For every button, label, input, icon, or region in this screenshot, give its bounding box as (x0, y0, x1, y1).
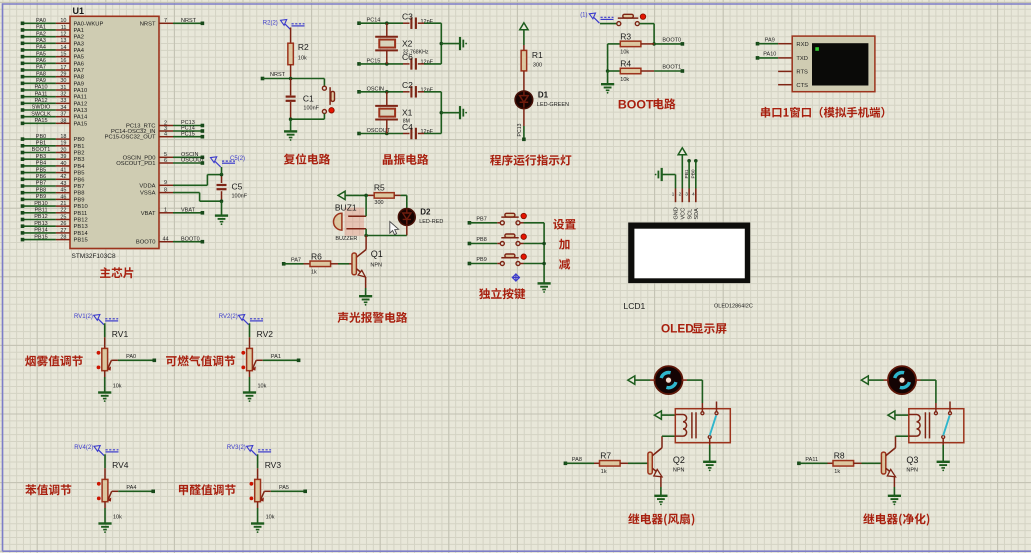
svg-text:27: 27 (60, 228, 66, 234)
svg-text:RV4: RV4 (112, 460, 129, 470)
ground below RV1 (98, 393, 111, 403)
ground below buttons (538, 283, 551, 293)
U1 pin VSSA (8) wire to C5 (140, 188, 221, 202)
label 烟雾值调节 (25, 355, 83, 366)
svg-text:NPN: NPN (673, 467, 685, 473)
label 苯值调节 (25, 484, 71, 495)
U1 pin PA12 (33) wire (21, 98, 88, 107)
ground below Q3 (888, 496, 901, 506)
svg-text:11: 11 (61, 25, 67, 31)
svg-text:PB8: PB8 (36, 187, 46, 193)
svg-text:LED-GREEN: LED-GREEN (537, 102, 569, 108)
wire PB9 to ground bus (520, 263, 544, 265)
svg-text:NPN: NPN (370, 262, 382, 268)
svg-text:RV1: RV1 (112, 329, 129, 339)
svg-text:PB2: PB2 (74, 151, 85, 157)
ground below RV2 (243, 393, 256, 403)
svg-text:PA2: PA2 (36, 31, 46, 37)
net terminal PC14 (357, 18, 380, 25)
net PA0 wire from RV1 wiper (111, 354, 156, 362)
svg-text:X1: X1 (402, 107, 413, 117)
svg-text:OLED12864I2C: OLED12864I2C (714, 304, 753, 310)
svg-text:R2: R2 (298, 42, 309, 52)
capacitor C2 12pF (402, 80, 434, 97)
virtual terminal serial window (792, 36, 875, 92)
wire PB7 to ground bus (520, 222, 544, 224)
label OLED显示屏 (661, 322, 726, 336)
svg-text:PA7: PA7 (291, 258, 301, 264)
wire R2 to NRST node (290, 65, 292, 79)
resistor R3 10k (608, 31, 655, 55)
wire PB8 to ground bus (520, 243, 544, 245)
relay 继电器(净化) (909, 402, 964, 443)
wire fan to relay contact (682, 380, 703, 412)
svg-text:PB3: PB3 (36, 154, 46, 160)
svg-text:RV1(2): RV1(2) (74, 314, 93, 320)
U1 pin PA11 (32) wire (21, 91, 87, 100)
label 声光报警电路 (338, 312, 408, 323)
label 晶振电路 (383, 154, 429, 165)
svg-text:PB7: PB7 (36, 181, 46, 187)
svg-text:7: 7 (164, 18, 167, 24)
svg-text:44: 44 (162, 237, 168, 243)
svg-text:PA0: PA0 (126, 354, 136, 360)
svg-text:10k: 10k (620, 77, 629, 83)
svg-text:PA4: PA4 (74, 48, 85, 54)
wire relay common to ground (709, 439, 711, 462)
side ground for X1 (460, 106, 467, 119)
wire RV1 bottom to ground (104, 371, 106, 393)
U1 pin PA6 (16) wire (21, 58, 84, 67)
svg-text:R5: R5 (374, 183, 385, 193)
svg-text:PB0: PB0 (74, 137, 85, 143)
voltage probe (1) for boot switch (580, 13, 613, 24)
ground below relay (937, 462, 950, 472)
svg-text:X2: X2 (402, 38, 413, 48)
svg-text:PB8: PB8 (74, 191, 85, 197)
net PA5 wire from RV3 wiper (264, 485, 307, 493)
svg-text:PA8: PA8 (36, 71, 46, 77)
svg-text:PB1: PB1 (36, 141, 46, 147)
svg-text:38: 38 (60, 118, 66, 124)
svg-text:PC15: PC15 (181, 131, 195, 137)
svg-text:R4: R4 (620, 59, 631, 69)
svg-text:PA1: PA1 (36, 25, 46, 31)
LCD1 OLED module pins (672, 189, 700, 220)
voltage probe RV2(2) (219, 314, 263, 325)
svg-text:43: 43 (60, 181, 66, 187)
power symbol OLED VCC (678, 148, 686, 155)
svg-text:9: 9 (164, 180, 167, 186)
svg-text:PB4: PB4 (36, 161, 46, 167)
origin marker (512, 274, 520, 282)
net PA9 wire to RXD (756, 37, 793, 45)
svg-text:16: 16 (60, 58, 66, 64)
net PA4 wire from RV4 wiper (112, 485, 155, 493)
svg-text:OSCOUT: OSCOUT (181, 158, 205, 164)
svg-text:PA7: PA7 (36, 65, 46, 71)
side ground for OLED GND pin (655, 168, 676, 181)
net PA8 wire (564, 457, 594, 465)
power symbol relay coil (654, 411, 675, 419)
svg-text:D1: D1 (538, 91, 549, 100)
svg-text:PA12: PA12 (74, 101, 88, 107)
svg-text:BUZZER: BUZZER (335, 236, 357, 242)
svg-text:8: 8 (164, 188, 167, 194)
mouse cursor (390, 222, 399, 235)
U1 pin PA3 (13) wire (21, 38, 84, 47)
svg-text:VSSA: VSSA (140, 191, 156, 197)
resistor R2 10k (288, 28, 309, 65)
svg-text:PA2: PA2 (74, 35, 85, 41)
ground below RV4 (98, 524, 111, 533)
wire OSCOUT row (359, 132, 410, 136)
wire PC15 row (359, 62, 410, 66)
svg-text:R3: R3 (620, 31, 631, 41)
U1 pin PA1 (11) wire (21, 25, 84, 34)
label 程序运行指示灯 (490, 154, 571, 165)
svg-text:C1: C1 (303, 94, 314, 104)
wire OLED GND pin (675, 175, 677, 189)
U1 pin PA10 (31) wire (21, 85, 88, 94)
label 继电器(净化) (863, 513, 929, 525)
potentiometer RV1 10k (97, 329, 129, 389)
svg-text:29: 29 (60, 72, 66, 78)
U1 pin PB12 (25) wire (21, 214, 88, 223)
wire PC14 row (359, 21, 410, 25)
U1 pin NRST (7) wire net NRST (140, 18, 204, 27)
U1 pin PA15 (38) wire (21, 118, 88, 127)
buzzer BUZ1 (334, 202, 367, 242)
svg-text:NRST: NRST (140, 21, 156, 27)
resistor R5 300 (368, 183, 401, 207)
svg-text:PC15-OSC32_OUT: PC15-OSC32_OUT (105, 135, 156, 141)
wire R3 left to R4 left (606, 44, 610, 73)
wire D1 to PC13 terminal (517, 109, 526, 142)
ground below relay (703, 462, 716, 472)
net terminal PC15 (357, 58, 380, 65)
net label NRST node (261, 72, 325, 80)
svg-text:17: 17 (60, 65, 66, 71)
svg-text:1k: 1k (311, 270, 317, 276)
ground below R4 (601, 71, 614, 94)
svg-text:PA11: PA11 (74, 95, 87, 101)
svg-text:TXD: TXD (796, 56, 808, 62)
net PB0 wire to SDA (691, 159, 698, 189)
svg-text:BOOT0: BOOT0 (662, 38, 681, 44)
wire OSCIN row (359, 90, 410, 94)
svg-text:28: 28 (60, 235, 66, 241)
net terminal OSCIN (357, 86, 384, 93)
svg-text:PB4: PB4 (74, 164, 86, 170)
svg-text:BOOT1: BOOT1 (662, 65, 681, 71)
power symbol fan (861, 376, 868, 384)
side ground for X2 (460, 37, 467, 50)
svg-text:30: 30 (60, 78, 66, 84)
svg-text:PB10: PB10 (74, 204, 88, 210)
svg-text:PB13: PB13 (74, 224, 88, 230)
wire probe to RV4 top (104, 454, 106, 479)
transistor Q3 NPN (881, 448, 918, 477)
capacitor C5 100nF (217, 173, 248, 203)
svg-text:300: 300 (533, 62, 542, 68)
resistor R7 1k (594, 450, 648, 475)
capacitor C6 12pF (402, 52, 434, 69)
svg-text:PB12: PB12 (34, 214, 47, 220)
svg-text:NRST: NRST (270, 72, 286, 78)
svg-text:PA8: PA8 (74, 75, 85, 81)
svg-text:SCL: SCL (687, 209, 693, 220)
svg-text:PA12: PA12 (34, 98, 47, 104)
svg-text:R2(2): R2(2) (263, 21, 278, 27)
label 串口1窗口（模拟手机端） (761, 107, 885, 118)
label 设置 (553, 219, 575, 230)
svg-text:8M: 8M (403, 118, 410, 124)
svg-text:PB9: PB9 (476, 257, 486, 263)
wire buzzer top to R5 node (365, 195, 367, 216)
wire Q1 emitter to ground (365, 288, 367, 296)
wire fan to relay contact (915, 380, 936, 412)
svg-text:PA10: PA10 (763, 52, 776, 58)
svg-text:PA1: PA1 (271, 354, 281, 360)
svg-text:PB5: PB5 (74, 171, 85, 177)
U1 pin PB1 (19) wire (21, 141, 85, 150)
push button PB8 (497, 234, 526, 246)
svg-text:10k: 10k (266, 514, 275, 520)
wire C2 to right bus (418, 91, 442, 93)
ground below RV3 (251, 524, 264, 533)
svg-text:PA5: PA5 (279, 485, 289, 491)
svg-text:RXD: RXD (796, 42, 808, 48)
svg-text:10k: 10k (298, 56, 307, 62)
U1 pin PA8 (29) wire (21, 71, 84, 80)
svg-text:PA15: PA15 (34, 118, 47, 124)
label 继电器(风扇) (628, 513, 694, 525)
svg-text:OLED: OLED (661, 322, 694, 336)
wire D2 to bottom node (364, 225, 406, 237)
resistor R8 1k (828, 450, 882, 475)
wire RV3 bottom to ground (257, 502, 259, 524)
U1 pin PC13_RTC (2) wire net PC13 (126, 120, 204, 129)
U1 pin PA4 (14) wire (21, 45, 85, 54)
net BOOT1 wire and terminal (654, 65, 684, 73)
svg-text:VBAT: VBAT (181, 208, 196, 214)
wire Q2 emitter to ground (660, 477, 662, 496)
svg-text:PB7: PB7 (74, 184, 85, 190)
net PB1 wire to SCL (684, 159, 691, 189)
label 减 (559, 259, 570, 270)
U1 main chip STM32F103C8 body (70, 6, 159, 260)
svg-text:PA6: PA6 (36, 58, 46, 64)
svg-text:6: 6 (164, 158, 167, 164)
svg-text:PB9: PB9 (36, 194, 46, 200)
voltage probe RV1(2) (74, 314, 118, 325)
svg-text:25: 25 (60, 214, 66, 220)
label 甲醛值调节 (179, 484, 236, 495)
label 主芯片 (100, 267, 133, 278)
svg-text:1k: 1k (834, 469, 840, 475)
svg-text:D2: D2 (420, 208, 431, 217)
resistor R4 10k (608, 59, 655, 83)
svg-text:33: 33 (60, 98, 66, 104)
U1 pin VBAT (1) wire net VBAT (141, 208, 204, 217)
svg-text:RV3: RV3 (265, 460, 282, 470)
wire probe to RV3 top (257, 454, 259, 479)
svg-text:PB6: PB6 (74, 177, 85, 183)
svg-text:VCC: VCC (681, 208, 687, 220)
svg-text:PB10: PB10 (34, 201, 47, 207)
wire C6 to right bus (418, 63, 442, 65)
label BOOT电路 (618, 97, 676, 111)
svg-text:(1): (1) (580, 13, 587, 19)
svg-text:U1: U1 (73, 6, 85, 16)
U1 pin PC14-OSC32_IN (3) wire net PC14 (111, 126, 204, 135)
svg-text:39: 39 (60, 154, 66, 160)
svg-text:SWCLK: SWCLK (31, 111, 51, 117)
potentiometer RV2 10k (241, 329, 273, 389)
svg-text:1k: 1k (601, 469, 607, 475)
wire switch to C1 bottom node (291, 114, 325, 120)
buzzer BUZ1 selection highlight (345, 208, 365, 236)
svg-text:PB14: PB14 (74, 231, 89, 237)
svg-text:BUZ1: BUZ1 (335, 202, 357, 212)
U1 pin PB10 (21) wire (21, 201, 88, 210)
svg-text:PA11: PA11 (35, 91, 48, 97)
ground below Q1 (359, 296, 372, 305)
LED D1 LED-GREEN (515, 91, 569, 109)
wire RV4 bottom to ground (104, 502, 106, 524)
svg-text:32: 32 (60, 92, 66, 98)
svg-text:PB11: PB11 (74, 211, 88, 217)
push button PB9 (497, 254, 526, 266)
wire right bus of X1 (440, 92, 460, 134)
svg-text:PB1: PB1 (684, 169, 690, 178)
svg-text:PA5: PA5 (74, 55, 85, 61)
svg-text:RV4(2): RV4(2) (74, 445, 93, 451)
svg-text:300: 300 (374, 200, 383, 206)
svg-text:PA3: PA3 (36, 38, 46, 44)
svg-text:PA11: PA11 (805, 457, 818, 463)
svg-text:12: 12 (60, 32, 66, 38)
net PA11 wire (797, 457, 827, 465)
wire Q2 collector to relay coil (662, 436, 675, 448)
svg-text:40: 40 (60, 161, 66, 167)
net PA1 wire from RV2 wiper (256, 354, 300, 362)
voltage probe RV3(2) (227, 445, 271, 456)
wire power to fan (868, 379, 889, 381)
power symbol above R1 (520, 23, 528, 30)
svg-text:RV2: RV2 (257, 329, 274, 339)
svg-text:VBAT: VBAT (141, 211, 156, 217)
capacitor C4 12pF (402, 122, 434, 139)
svg-text:34: 34 (60, 105, 66, 111)
svg-text:PB5: PB5 (36, 167, 46, 173)
capacitor C3 12pF (402, 12, 434, 29)
U1 pin PC15-OSC32_OUT (4) wire net PC15 (105, 131, 205, 140)
svg-text:C5(2): C5(2) (230, 156, 245, 162)
U1 pin PB15 (28) wire (21, 234, 88, 243)
power symbol alarm (338, 191, 345, 199)
wire right bus of X2 (440, 23, 460, 64)
U1 pin PA2 (12) wire (21, 31, 84, 40)
svg-text:BOOT1: BOOT1 (32, 147, 51, 153)
voltage probe R2(2) (263, 20, 305, 30)
U1 pin PA13 (34) wire (21, 105, 88, 114)
U1 pin OSCOUT_PD1 (6) wire net OSCOUT (116, 158, 205, 167)
wire buzzer bottom to node (365, 229, 367, 236)
wire power to fan (635, 379, 656, 381)
svg-text:10k: 10k (113, 383, 122, 389)
svg-text:PA7: PA7 (74, 68, 85, 74)
wire R1 to D1 (523, 71, 525, 91)
U1 pin PB7 (43) wire (21, 181, 85, 190)
svg-text:21: 21 (60, 201, 66, 207)
svg-text:RTS: RTS (796, 70, 808, 76)
svg-text:1: 1 (164, 208, 167, 214)
potentiometer RV3 10k (250, 460, 282, 520)
svg-text:37: 37 (60, 112, 66, 118)
svg-text:PA8: PA8 (572, 457, 582, 463)
wire RV2 bottom to ground (249, 371, 251, 393)
svg-text:13: 13 (60, 38, 66, 44)
wire OLED VCC pin (681, 155, 683, 189)
wire NRST to reset switch (323, 79, 325, 87)
net PA10 wire to TXD (756, 52, 793, 60)
wire relay common to ground (942, 439, 944, 462)
svg-text:LED-RED: LED-RED (419, 219, 443, 225)
svg-text:Q3: Q3 (906, 455, 918, 465)
power symbol fan (628, 376, 635, 384)
svg-text:10k: 10k (620, 50, 629, 56)
ground below Q2 (654, 496, 667, 506)
U1 pin PA0-WKUP (10) wire (21, 18, 104, 27)
relay 继电器(风扇) (675, 402, 730, 443)
push button PB7 (497, 213, 526, 225)
label 可燃气值调节 (166, 355, 235, 366)
svg-text:Q2: Q2 (673, 455, 685, 465)
svg-text:4: 4 (164, 132, 167, 138)
label 复位电路 (284, 153, 330, 164)
svg-text:PA0-WKUP: PA0-WKUP (74, 21, 104, 27)
svg-text:C3: C3 (402, 12, 413, 22)
net BOOT0 wire and terminal (654, 38, 684, 46)
svg-text:SWDIO: SWDIO (32, 105, 51, 111)
svg-text:100nF: 100nF (303, 105, 319, 111)
fan motor symbol (655, 366, 683, 394)
svg-text:26: 26 (60, 221, 66, 227)
voltage probe C5(2) (211, 156, 246, 174)
svg-text:PC13: PC13 (517, 123, 523, 136)
svg-text:14: 14 (60, 45, 66, 51)
svg-text:PA5: PA5 (36, 51, 46, 57)
pin CTS stub (778, 84, 792, 86)
svg-text:RV2(2): RV2(2) (219, 314, 238, 320)
transistor Q2 NPN (648, 448, 685, 477)
svg-text:10k: 10k (258, 383, 267, 389)
U1 pin OSCIN_PD0 (5) wire net OSCIN (123, 152, 205, 161)
svg-text:20: 20 (60, 147, 66, 153)
capacitor C1 100nF (286, 79, 320, 121)
net PB8 wire (468, 237, 498, 245)
svg-text:22: 22 (60, 208, 66, 214)
svg-text:PA4: PA4 (126, 485, 136, 491)
net PA7 wire (282, 258, 310, 266)
svg-text:GND: GND (674, 207, 680, 219)
svg-text:R7: R7 (600, 450, 611, 460)
crystal X2 32.768KHz (375, 23, 429, 64)
svg-text:PB9: PB9 (74, 197, 85, 203)
svg-text:LCD1: LCD1 (624, 301, 646, 311)
